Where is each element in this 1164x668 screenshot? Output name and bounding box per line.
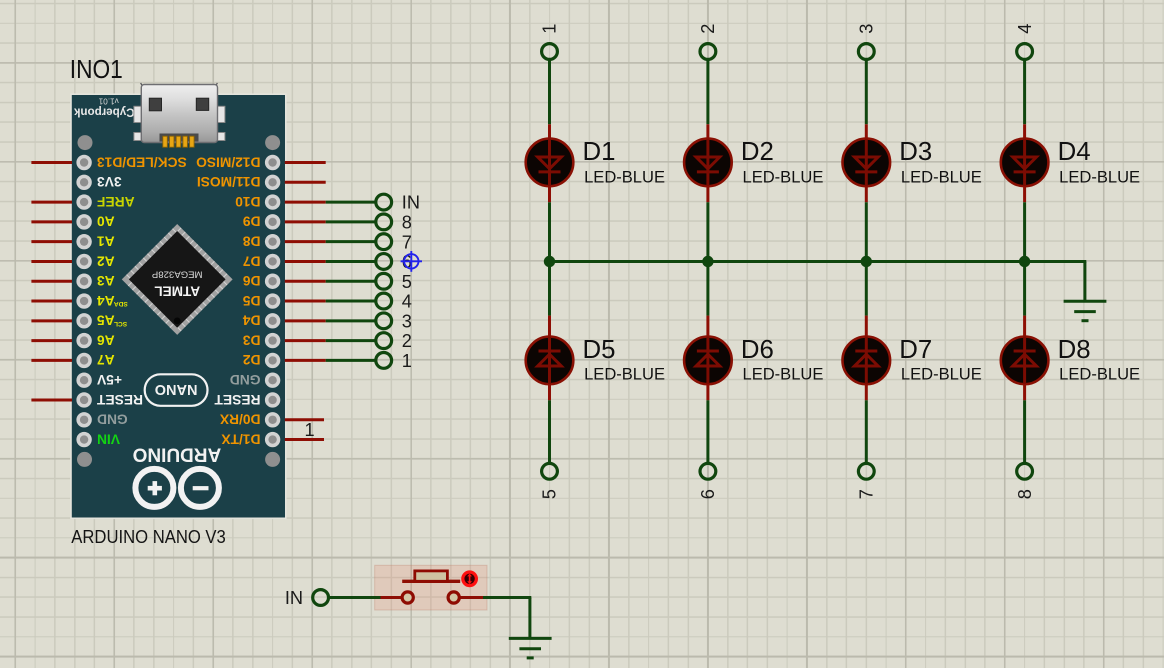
svg-text:D12/MISO: D12/MISO [196, 154, 261, 169]
svg-text:LED-BLUE: LED-BLUE [901, 366, 982, 384]
svg-text:INO1: INO1 [70, 54, 123, 84]
svg-text:3: 3 [857, 24, 877, 34]
svg-text:5: 5 [540, 489, 560, 499]
svg-text:SCK/LED/D13: SCK/LED/D13 [97, 154, 187, 169]
svg-text:1: 1 [402, 351, 412, 371]
svg-text:D3: D3 [899, 138, 932, 166]
svg-text:MEGA328P: MEGA328P [152, 268, 203, 279]
svg-text:6: 6 [698, 489, 718, 499]
svg-text:IN: IN [402, 193, 420, 213]
svg-text:D6: D6 [243, 273, 261, 288]
svg-text:LED-BLUE: LED-BLUE [743, 168, 824, 186]
svg-text:GND: GND [230, 372, 261, 387]
svg-text:RESET: RESET [96, 392, 143, 407]
svg-text:1: 1 [540, 24, 560, 34]
svg-text:v1.01: v1.01 [98, 97, 118, 106]
svg-text:A6: A6 [97, 332, 115, 347]
svg-text:D0/RX: D0/RX [219, 412, 260, 427]
svg-text:D8: D8 [243, 233, 261, 248]
svg-text:+5V: +5V [96, 372, 122, 387]
svg-text:SCL: SCL [114, 320, 127, 327]
svg-text:4: 4 [1015, 24, 1035, 34]
svg-text:8: 8 [1015, 489, 1035, 499]
svg-text:D6: D6 [741, 336, 774, 364]
svg-text:A0: A0 [97, 214, 115, 229]
svg-text:A1: A1 [97, 233, 115, 248]
svg-text:D8: D8 [1058, 336, 1091, 364]
svg-text:7: 7 [402, 232, 412, 252]
svg-text:LED-BLUE: LED-BLUE [743, 366, 824, 384]
svg-text:LED-BLUE: LED-BLUE [1059, 168, 1140, 186]
svg-text:D10: D10 [235, 194, 261, 209]
svg-text:RESET: RESET [214, 392, 261, 407]
svg-text:D7: D7 [243, 253, 261, 268]
svg-text:AREF: AREF [97, 194, 135, 209]
svg-text:A7: A7 [97, 352, 115, 367]
svg-text:2: 2 [698, 24, 718, 34]
svg-text:2: 2 [402, 331, 412, 351]
svg-text:D11/MOSI: D11/MOSI [197, 174, 261, 189]
svg-text:NANO: NANO [155, 381, 198, 397]
svg-text:D2: D2 [243, 352, 261, 367]
svg-text:8: 8 [402, 212, 412, 232]
svg-text:D3: D3 [243, 332, 261, 347]
svg-text:Cyberponk: Cyberponk [73, 105, 134, 118]
svg-text:5: 5 [402, 272, 412, 292]
svg-text:1: 1 [305, 420, 315, 440]
svg-text:A5: A5 [97, 313, 115, 328]
svg-text:LED-BLUE: LED-BLUE [584, 168, 665, 186]
svg-text:ARDUINO: ARDUINO [133, 443, 222, 464]
svg-text:D5: D5 [243, 293, 261, 308]
svg-text:IN: IN [285, 588, 303, 608]
svg-text:ATMEL: ATMEL [154, 283, 200, 298]
svg-text:D1/TX: D1/TX [221, 431, 261, 446]
svg-text:D4: D4 [1058, 138, 1091, 166]
svg-text:D2: D2 [741, 138, 774, 166]
svg-text:GND: GND [97, 412, 128, 427]
svg-text:4: 4 [402, 292, 412, 312]
svg-text:LED-BLUE: LED-BLUE [584, 366, 665, 384]
svg-text:7: 7 [857, 489, 877, 499]
svg-text:A3: A3 [97, 273, 115, 288]
svg-text:A4: A4 [97, 293, 115, 308]
svg-text:D5: D5 [583, 336, 616, 364]
svg-text:D9: D9 [243, 214, 261, 229]
svg-text:D1: D1 [583, 138, 616, 166]
svg-text:3V3: 3V3 [97, 174, 122, 189]
svg-text:D4: D4 [243, 313, 261, 328]
svg-text:A2: A2 [97, 253, 115, 268]
svg-text:SDA: SDA [114, 300, 128, 307]
svg-text:VIN: VIN [97, 431, 120, 446]
svg-text:LED-BLUE: LED-BLUE [1059, 366, 1140, 384]
svg-text:3: 3 [402, 311, 412, 331]
svg-text:ARDUINO NANO V3: ARDUINO NANO V3 [71, 526, 226, 547]
svg-text:D7: D7 [899, 336, 932, 364]
svg-text:LED-BLUE: LED-BLUE [901, 168, 982, 186]
